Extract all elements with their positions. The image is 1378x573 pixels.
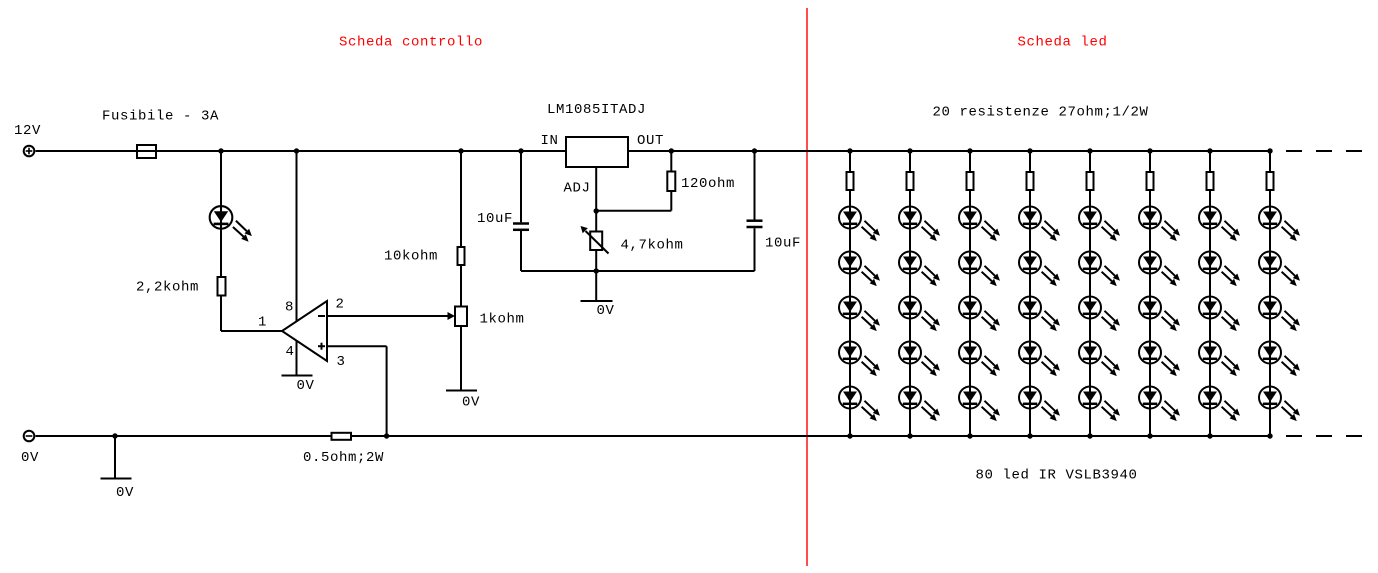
svg-text:0V: 0V <box>597 303 615 319</box>
svg-text:Scheda led: Scheda led <box>1018 35 1108 51</box>
svg-text:2,2kohm: 2,2kohm <box>136 280 199 296</box>
svg-text:Fusibile - 3A: Fusibile - 3A <box>102 109 219 125</box>
svg-text:2: 2 <box>336 297 345 313</box>
svg-text:1kohm: 1kohm <box>480 312 525 328</box>
svg-text:20 resistenze 27ohm;1/2W: 20 resistenze 27ohm;1/2W <box>933 105 1149 121</box>
svg-text:IN: IN <box>541 133 559 149</box>
svg-text:80 led IR VSLB3940: 80 led IR VSLB3940 <box>976 468 1138 484</box>
svg-text:10kohm: 10kohm <box>384 249 438 265</box>
svg-text:OUT: OUT <box>637 133 664 149</box>
svg-text:0V: 0V <box>116 485 134 501</box>
svg-text:1: 1 <box>258 315 267 331</box>
svg-text:10uF: 10uF <box>477 211 513 227</box>
svg-text:0V: 0V <box>21 450 39 466</box>
svg-text:10uF: 10uF <box>765 236 801 252</box>
svg-text:0V: 0V <box>462 395 480 411</box>
svg-text:120ohm: 120ohm <box>681 176 735 192</box>
svg-text:Scheda controllo: Scheda controllo <box>339 35 483 51</box>
svg-text:ADJ: ADJ <box>564 181 591 197</box>
svg-text:0V: 0V <box>297 378 315 394</box>
svg-text:0.5ohm;2W: 0.5ohm;2W <box>303 450 384 466</box>
svg-text:8: 8 <box>285 299 294 315</box>
svg-text:4,7kohm: 4,7kohm <box>621 238 684 254</box>
svg-text:3: 3 <box>337 354 346 370</box>
svg-text:LM1085ITADJ: LM1085ITADJ <box>547 102 646 118</box>
svg-text:4: 4 <box>286 344 295 360</box>
svg-text:12V: 12V <box>14 123 41 139</box>
